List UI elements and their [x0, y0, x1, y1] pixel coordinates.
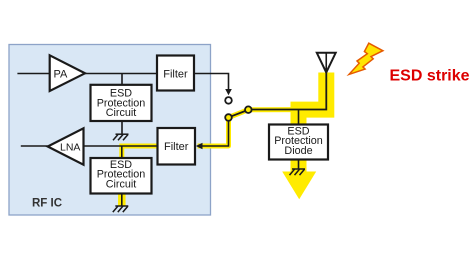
ESD protection diode: [269, 125, 328, 160]
wire filter to LNA input: [84, 145, 158, 147]
wire LNA output (left): [21, 145, 48, 147]
svg-text:PA: PA: [54, 68, 69, 80]
svg-text:Circuit: Circuit: [106, 178, 137, 190]
wire top ESD circuit to ground: [121, 121, 123, 135]
lightning bolt: [349, 43, 383, 74]
ground (bottom ESD circuit): [113, 206, 129, 212]
switch contact (Tx, open): [225, 97, 232, 104]
wire switch to bottom filter (Rx): [202, 121, 229, 146]
Filter (Rx): [158, 128, 196, 165]
wire PA input: [17, 73, 49, 75]
svg-text:Circuit: Circuit: [106, 107, 137, 119]
wire PA output to Filter: [85, 73, 157, 75]
ESD protection circuit (top): [91, 85, 152, 121]
wire stem to top ESD protection circuit: [121, 74, 123, 86]
arrowhead left into bottom filter: [196, 143, 203, 149]
ESD protection circuit (bottom): [91, 158, 152, 194]
switch contact (antenna): [245, 106, 252, 113]
antenna feed wire: [252, 53, 326, 110]
antenna: [317, 53, 336, 73]
svg-text:Diode: Diode: [284, 145, 312, 157]
svg-text:RF IC: RF IC: [32, 198, 62, 210]
svg-text:ESD strike: ESD strike: [390, 68, 470, 85]
wire bottom ESD circuit to ground: [121, 194, 123, 207]
wire diode to ground: [298, 160, 300, 170]
arrowhead down at switch: [225, 89, 232, 95]
PA amplifier: [50, 55, 85, 91]
ground (top ESD circuit): [113, 134, 129, 140]
ESD path thin highlight (switch to filter): [198, 110, 307, 146]
ground (ESD protection diode): [290, 169, 306, 175]
ESD strike thick yellow path: [299, 73, 327, 127]
svg-text:LNA: LNA: [60, 142, 80, 154]
ESD path thin highlight (filter to LNA node): [122, 146, 158, 159]
yellow discharge arrow: [291, 158, 307, 172]
svg-text:Filter: Filter: [164, 141, 189, 153]
LNA amplifier: [48, 128, 84, 164]
RF IC block: [9, 45, 211, 216]
svg-text:Filter: Filter: [163, 69, 188, 81]
switch arm: [232, 111, 246, 116]
Filter (Tx): [157, 56, 194, 91]
wire stem to bottom ESD protection circuit: [121, 146, 123, 159]
wire Filter to switch (Tx): [194, 74, 229, 90]
antenna center line: [325, 53, 327, 73]
ESD path thin highlight (below ESD protection circuit): [118, 194, 126, 207]
switch contact (Rx): [225, 114, 232, 121]
wire down to ESD protection diode: [298, 110, 300, 127]
